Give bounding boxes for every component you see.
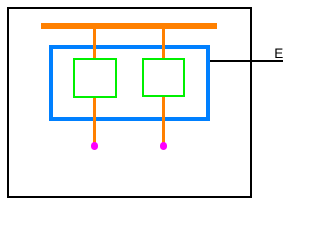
enclosure frame (outer black border): [7, 7, 252, 198]
bus bar (orange horizontal): [41, 23, 217, 29]
component box 2 (green square): [142, 58, 185, 97]
leader line to label E: [210, 60, 284, 62]
panel box E (blue rectangle): [49, 45, 210, 121]
label E: [274, 47, 283, 61]
node terminal 1 (magenta dot): [91, 142, 99, 150]
wire drop 1 (orange vertical): [93, 29, 96, 144]
component box 1 (green square): [73, 58, 117, 97]
node terminal 2 (magenta dot): [160, 142, 168, 150]
wire drop 2 (orange vertical): [162, 29, 165, 144]
